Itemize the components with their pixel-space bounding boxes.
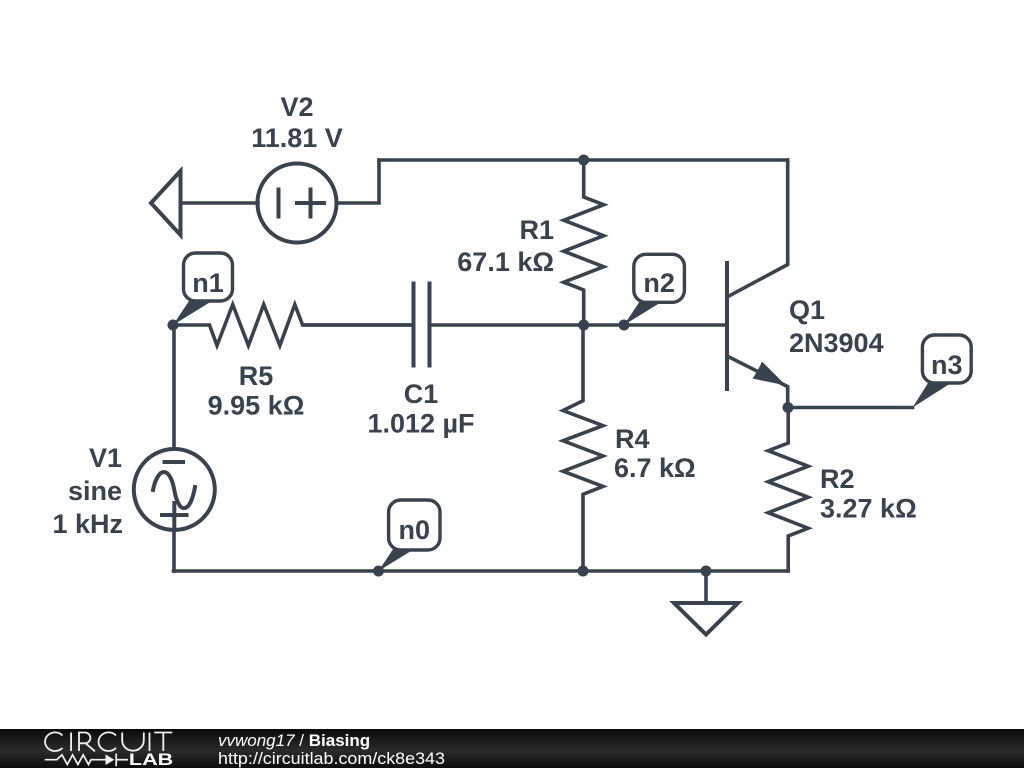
wire V1 down to bottom rail xyxy=(172,530,176,571)
node n1 dot xyxy=(168,320,179,331)
svg-text:9.95 kΩ: 9.95 kΩ xyxy=(208,391,305,421)
svg-text:C1: C1 xyxy=(404,379,439,409)
wire bottom rail xyxy=(174,569,789,573)
svg-text:R4: R4 xyxy=(615,424,650,454)
wire emitter to n3 xyxy=(788,406,913,410)
svg-text:n2: n2 xyxy=(643,268,675,298)
wire mid rail left (R5 to C1) xyxy=(304,323,414,327)
svg-text:R2: R2 xyxy=(820,464,855,494)
arrow terminal flag on V2 xyxy=(151,171,181,235)
wire n1 down to V1 xyxy=(172,325,176,449)
svg-text:vvwong17 / Biasing: vvwong17 / Biasing xyxy=(218,731,370,750)
node flag n0 xyxy=(379,500,441,571)
svg-text:2N3904: 2N3904 xyxy=(789,328,884,358)
wire mid rail right (C1 to Q1 base) xyxy=(430,323,728,327)
wire top rail xyxy=(379,158,788,162)
svg-text:V1: V1 xyxy=(89,443,122,473)
junction Q1 emitter node xyxy=(783,402,794,413)
footer bar xyxy=(0,729,1024,768)
svg-text:1.012 µF: 1.012 µF xyxy=(367,409,474,439)
junction ground / R4 bottom xyxy=(578,566,589,577)
wire V2 right to top rail xyxy=(338,160,379,203)
junction R1/R4 mid rail xyxy=(578,320,589,331)
svg-text:n1: n1 xyxy=(192,268,224,298)
svg-text:6.7 kΩ: 6.7 kΩ xyxy=(614,453,696,483)
svg-text:3.27 kΩ: 3.27 kΩ xyxy=(820,494,917,524)
svg-text:V2: V2 xyxy=(280,92,313,122)
svg-text:n3: n3 xyxy=(931,350,963,380)
node n0 dot xyxy=(373,566,384,577)
node flag n1 xyxy=(173,253,233,325)
node flag n3 xyxy=(913,335,972,408)
resistor R1 xyxy=(564,160,604,325)
node flag n2 xyxy=(624,254,684,325)
CircuitLab logo CIRCUIT xyxy=(45,732,172,751)
svg-text:LAB: LAB xyxy=(129,751,173,768)
svg-text:n0: n0 xyxy=(399,515,431,545)
resistor R5 xyxy=(173,305,414,346)
node n2 dot xyxy=(619,320,630,331)
voltage source V1 (sine) xyxy=(134,449,215,530)
svg-text:11.81 V: 11.81 V xyxy=(251,123,343,153)
svg-text:R1: R1 xyxy=(519,215,554,245)
wire V2 left to arrow flag xyxy=(181,201,259,205)
resistor R4 xyxy=(563,325,603,571)
svg-text:sine: sine xyxy=(68,476,122,506)
svg-text:Q1: Q1 xyxy=(789,295,825,325)
svg-text:http://circuitlab.com/ck8e343: http://circuitlab.com/ck8e343 xyxy=(218,749,445,768)
svg-text:1 kHz: 1 kHz xyxy=(52,509,123,539)
voltage source V2 xyxy=(258,164,337,243)
svg-text:R5: R5 xyxy=(239,361,274,391)
ground symbol xyxy=(674,571,738,635)
capacitor C1 xyxy=(414,284,430,366)
junction ground stem xyxy=(701,566,712,577)
CircuitLab logo squiggle (resistor+diode) xyxy=(45,754,128,767)
junction top rail / R1 xyxy=(578,155,589,166)
transistor Q1 2N3904 (NPN) xyxy=(727,160,788,408)
svg-text:67.1 kΩ: 67.1 kΩ xyxy=(457,247,554,277)
resistor R2 xyxy=(768,408,808,572)
